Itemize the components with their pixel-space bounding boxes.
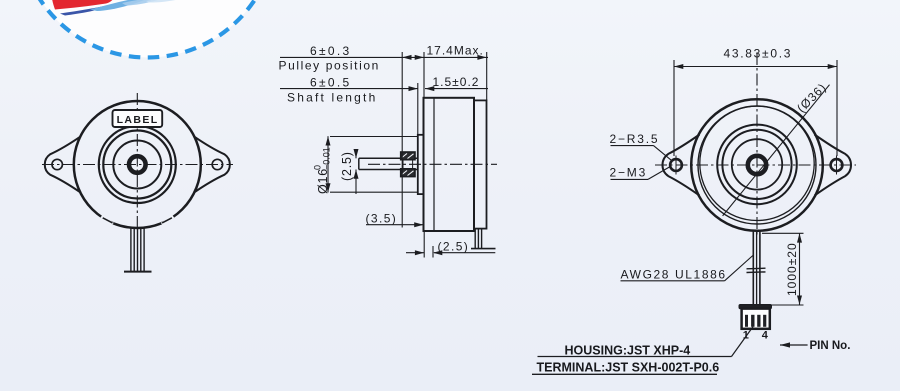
svg-text:−0.01: −0.01 — [322, 147, 332, 170]
svg-text:17.4Max.: 17.4Max. — [427, 44, 484, 58]
svg-text:43.83±0.3: 43.83±0.3 — [724, 47, 793, 61]
svg-text:HOUSING:JST XHP-4: HOUSING:JST XHP-4 — [565, 344, 691, 358]
svg-text:(2.5): (2.5) — [340, 151, 354, 181]
svg-text:6±0.3: 6±0.3 — [310, 44, 351, 58]
svg-text:1: 1 — [743, 330, 749, 342]
svg-text:TERMINAL:JST SXH-002T-P0.6: TERMINAL:JST SXH-002T-P0.6 — [537, 361, 720, 375]
svg-text:LABEL: LABEL — [117, 114, 159, 126]
svg-text:1.5±0.2: 1.5±0.2 — [433, 75, 480, 89]
svg-text:Ø16: Ø16 — [316, 168, 330, 194]
svg-text:(2.5): (2.5) — [438, 240, 470, 254]
svg-text:(Ø36): (Ø36) — [794, 80, 829, 115]
svg-text:6±0.5: 6±0.5 — [310, 76, 351, 90]
svg-text:1000±20: 1000±20 — [785, 242, 799, 296]
svg-text:2−R3.5: 2−R3.5 — [610, 132, 660, 146]
svg-text:Shaft length: Shaft length — [287, 91, 377, 105]
svg-text:AWG28 UL1886: AWG28 UL1886 — [621, 268, 727, 282]
svg-text:PIN No.: PIN No. — [810, 340, 851, 352]
svg-text:4: 4 — [762, 330, 769, 342]
svg-text:2−M3: 2−M3 — [610, 166, 648, 180]
svg-text:Pulley position: Pulley position — [279, 59, 380, 73]
svg-text:(3.5): (3.5) — [366, 212, 398, 226]
